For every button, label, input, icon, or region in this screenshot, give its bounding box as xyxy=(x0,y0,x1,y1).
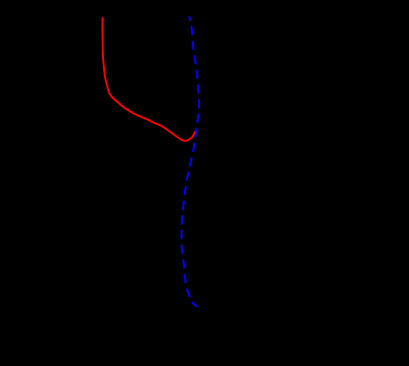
red solid curve xyxy=(103,17,195,140)
blue dashed curve xyxy=(182,16,200,307)
